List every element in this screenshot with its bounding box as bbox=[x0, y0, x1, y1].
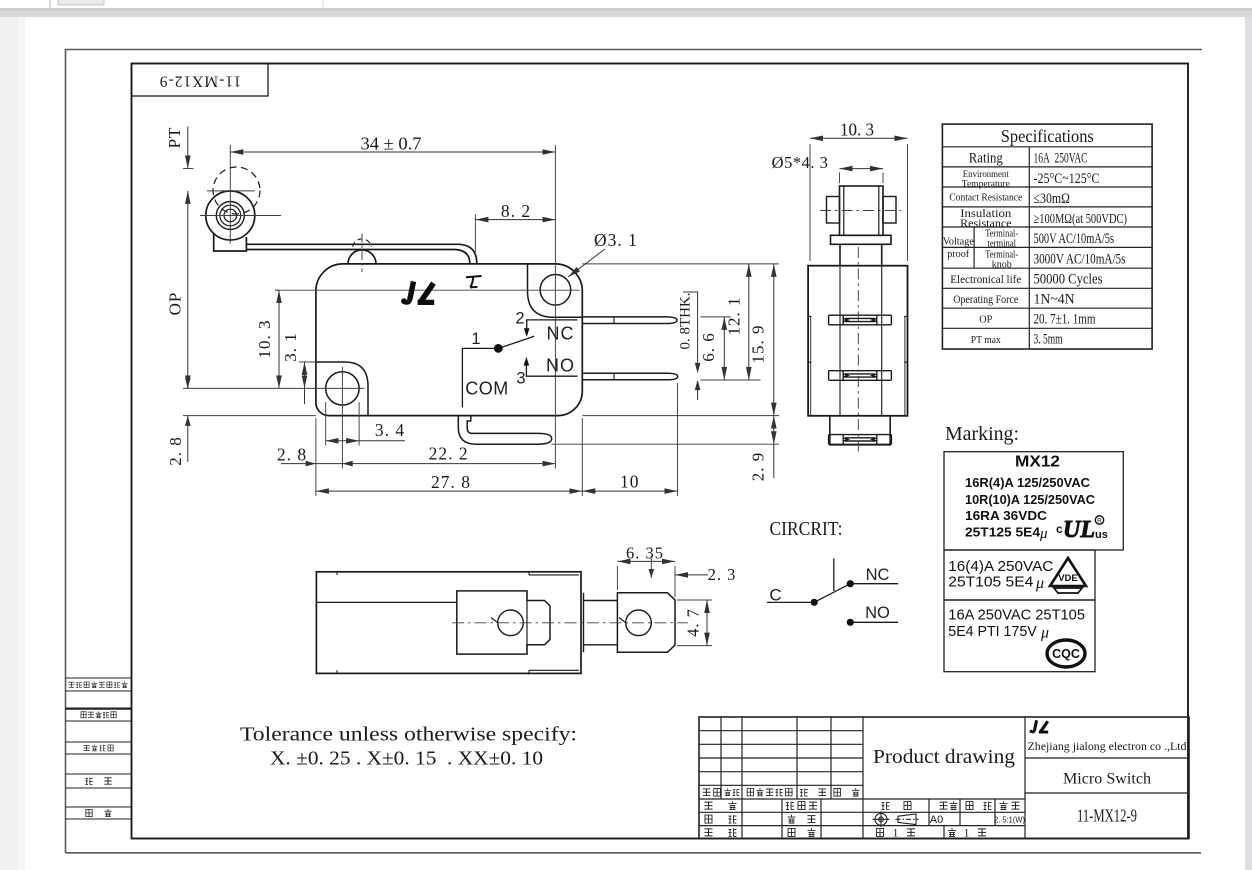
plunger free position (dashed) bbox=[353, 239, 372, 247]
roller pin tabs bbox=[827, 197, 840, 224]
right scrollbar strip bbox=[1245, 17, 1252, 870]
svg-text:11-MX12-9: 11-MX12-9 bbox=[1077, 806, 1137, 826]
NO wire bbox=[850, 621, 898, 623]
svg-text:12. 1: 12. 1 bbox=[725, 297, 744, 336]
svg-text:-25°C~125°C: -25°C~125°C bbox=[1034, 171, 1100, 187]
NO terminal prong bbox=[582, 373, 677, 380]
dim PT bbox=[187, 127, 189, 169]
previous page bottom edge strip bbox=[0, 0, 1252, 9]
gray gap band between pages bbox=[0, 8, 1252, 18]
svg-text:≥100MΩ(at 500VDC): ≥100MΩ(at 500VDC) bbox=[1034, 212, 1128, 227]
right terminal neck bbox=[584, 593, 618, 653]
svg-text:8. 2: 8. 2 bbox=[501, 201, 531, 221]
svg-text:μ: μ bbox=[1040, 625, 1049, 642]
dim 12.1 bbox=[748, 264, 750, 380]
NC wire bbox=[850, 583, 898, 585]
terminal row 2 bbox=[829, 371, 892, 381]
svg-text:Temperature: Temperature bbox=[962, 179, 1010, 189]
C lead wire bbox=[767, 601, 814, 603]
right terminal tab bbox=[617, 593, 675, 653]
svg-text:3. 1: 3. 1 bbox=[281, 332, 300, 362]
svg-text:20. 7±1. 1mm: 20. 7±1. 1mm bbox=[1034, 312, 1097, 328]
svg-text:us: us bbox=[1095, 529, 1108, 541]
dim 27.8 bbox=[316, 490, 582, 492]
svg-text:μ: μ bbox=[1039, 526, 1048, 542]
svg-text:Contact Resistance: Contact Resistance bbox=[949, 192, 1022, 204]
moving contact blade bbox=[814, 584, 850, 603]
revision table header row bbox=[703, 789, 711, 796]
svg-text:Zhejiang jialong electron co .: Zhejiang jialong electron co .,Ltd bbox=[1028, 739, 1187, 753]
dim dia5*4.3 bbox=[840, 168, 884, 170]
extension lines bbox=[207, 190, 255, 192]
svg-text:Tolerance unless otherwise spe: Tolerance unless otherwise specify: bbox=[240, 724, 577, 746]
svg-text:A0: A0 bbox=[930, 814, 943, 826]
projection symbol bbox=[873, 812, 919, 828]
dim 6.6 bbox=[723, 317, 725, 380]
svg-text:CIRCRIT:: CIRCRIT: bbox=[770, 519, 843, 540]
svg-text:10: 10 bbox=[620, 472, 640, 492]
svg-text:VDE: VDE bbox=[1058, 573, 1078, 584]
body edge steps bbox=[808, 316, 907, 362]
svg-text:15. 9: 15. 9 bbox=[749, 325, 768, 364]
front view centerlines bbox=[857, 247, 859, 455]
center terminal tab bbox=[457, 591, 550, 654]
lever bent end bbox=[456, 244, 477, 263]
svg-text:2. 3: 2. 3 bbox=[708, 565, 737, 584]
svg-text:Operating Force: Operating Force bbox=[953, 292, 1018, 306]
svg-text:Ø5*4. 3: Ø5*4. 3 bbox=[772, 153, 829, 172]
terminal row 1 bbox=[829, 315, 892, 325]
svg-text:34 ± 0.7: 34 ± 0.7 bbox=[361, 134, 422, 154]
actuator line bbox=[833, 559, 835, 592]
svg-text:6. 35: 6. 35 bbox=[626, 544, 664, 563]
bottom section bbox=[830, 416, 890, 445]
boss around top-right hole bbox=[528, 264, 583, 317]
svg-text:16A 250VAC 25T105: 16A 250VAC 25T105 bbox=[948, 607, 1085, 624]
roller front bbox=[840, 186, 884, 235]
roller (side view) bbox=[206, 191, 255, 240]
dim 10.3 (vertical) bbox=[278, 290, 280, 388]
svg-text:10. 3: 10. 3 bbox=[255, 320, 274, 359]
svg-text:2. 8: 2. 8 bbox=[166, 436, 185, 466]
svg-text:PT: PT bbox=[165, 127, 184, 149]
NC contact bracket bbox=[527, 320, 578, 329]
svg-text:50000 Cycles: 50000 Cycles bbox=[1034, 272, 1103, 288]
svg-text:3: 3 bbox=[516, 369, 525, 387]
NO arrow (up) bbox=[524, 357, 530, 366]
svg-text:25T125 5E4: 25T125 5E4 bbox=[965, 525, 1041, 540]
dim 3.1 (vertical) bbox=[304, 362, 306, 388]
svg-text:500V AC/10mA/5s: 500V AC/10mA/5s bbox=[1034, 231, 1115, 247]
svg-text:11-MX12-9: 11-MX12-9 bbox=[159, 72, 241, 89]
svg-text:2. 9: 2. 9 bbox=[749, 452, 768, 482]
COM lead line bbox=[462, 348, 494, 407]
svg-text:X. ±0. 25 . X±0. 15 . XX±0. 1: X. ±0. 25 . X±0. 15 . XX±0. 10 bbox=[270, 748, 543, 770]
dim OP bbox=[187, 191, 189, 389]
svg-text:terminal: terminal bbox=[988, 239, 1017, 250]
svg-text:1N~4N: 1N~4N bbox=[1034, 292, 1075, 308]
dim 2.3 bbox=[650, 556, 652, 578]
svg-text:1: 1 bbox=[893, 827, 899, 839]
JL logo on body bbox=[401, 282, 434, 305]
svg-text:C: C bbox=[769, 586, 781, 605]
lever bracket front bbox=[831, 235, 892, 244]
dim 2.8 (left, hole center to body bottom) bbox=[187, 376, 189, 462]
dim 34 +- 0.7 bbox=[230, 151, 555, 153]
svg-text:knob: knob bbox=[992, 260, 1012, 271]
plunger bump bbox=[348, 250, 376, 264]
moving contact arm bbox=[498, 336, 534, 348]
body front bbox=[808, 266, 907, 416]
lever arm bbox=[246, 244, 459, 249]
dim 15.9 bbox=[773, 264, 775, 416]
dim 2.8 (bottom) bbox=[281, 463, 342, 465]
dim 2.9 bbox=[773, 416, 775, 445]
mounting hole bottom-left bbox=[326, 372, 359, 405]
svg-text:UL: UL bbox=[1063, 517, 1095, 543]
svg-text:6. 6: 6. 6 bbox=[699, 332, 718, 362]
roller free position (dashed circle) bbox=[213, 167, 260, 214]
svg-text:proof: proof bbox=[947, 248, 969, 260]
plunger stem bbox=[840, 244, 882, 265]
top-left rotated drawing-number box bbox=[132, 64, 269, 97]
svg-text:COM: COM bbox=[465, 379, 509, 399]
svg-text:3000V AC/10mA/5s: 3000V AC/10mA/5s bbox=[1034, 252, 1126, 268]
svg-text:PT max: PT max bbox=[971, 334, 1001, 346]
dim 22.2 bbox=[342, 463, 555, 465]
svg-text:MX12: MX12 bbox=[1015, 454, 1060, 471]
dim 6.35 bbox=[617, 566, 675, 597]
small mold mark symbol on body top bbox=[466, 276, 482, 288]
COM terminal bent under body bbox=[458, 416, 551, 445]
svg-text:16R(4)A 125/250VAC: 16R(4)A 125/250VAC bbox=[965, 475, 1091, 490]
dim 3.4 bbox=[326, 440, 359, 442]
dim 10 bbox=[582, 490, 677, 492]
svg-text:2: 2 bbox=[515, 310, 524, 328]
svg-text:16(4)A 250VAC: 16(4)A 250VAC bbox=[948, 558, 1053, 575]
svg-text:μ: μ bbox=[1035, 575, 1044, 592]
dim 4.7 bbox=[677, 600, 712, 646]
svg-text:Environment: Environment bbox=[963, 169, 1009, 179]
svg-text:27. 8: 27. 8 bbox=[431, 472, 471, 492]
terminal row 3 (bottom) bbox=[829, 435, 892, 445]
NO contact bracket bbox=[526, 366, 577, 377]
NC arrow (down) bbox=[524, 328, 530, 337]
boss around bottom-left hole bbox=[316, 362, 368, 416]
switch body outline bbox=[316, 264, 582, 416]
svg-text:Micro Switch: Micro Switch bbox=[1063, 771, 1151, 788]
svg-text:16RA 36VDC: 16RA 36VDC bbox=[965, 508, 1048, 523]
internal contact diagram bbox=[465, 310, 575, 399]
svg-text:2. 8: 2. 8 bbox=[277, 445, 307, 465]
centerlines of main view (thin) bbox=[200, 145, 580, 469]
svg-text:16A 250VAC: 16A 250VAC bbox=[1034, 151, 1088, 167]
svg-text:Voltage: Voltage bbox=[943, 236, 974, 248]
dim 8.2 bbox=[475, 219, 555, 221]
svg-text:NC: NC bbox=[547, 323, 575, 343]
svg-text:4. 7: 4. 7 bbox=[684, 608, 703, 637]
approval rows bbox=[705, 802, 713, 809]
dim 10.3 (front view) bbox=[810, 144, 908, 261]
svg-text:Electronical life: Electronical life bbox=[950, 272, 1021, 286]
svg-text:CQC: CQC bbox=[1052, 647, 1080, 661]
svg-text:10. 3: 10. 3 bbox=[840, 120, 874, 140]
svg-text:OP: OP bbox=[979, 314, 992, 326]
svg-text:Specifications: Specifications bbox=[1001, 126, 1094, 146]
svg-text:1: 1 bbox=[471, 330, 480, 348]
mounting hole top-right (dia 3.1) bbox=[540, 275, 571, 306]
svg-text:OP: OP bbox=[166, 292, 185, 316]
svg-text:1: 1 bbox=[964, 827, 970, 839]
svg-text:3. 5mm: 3. 5mm bbox=[1034, 332, 1063, 348]
svg-text:R: R bbox=[1097, 518, 1102, 525]
svg-text:10R(10)A 125/250VAC: 10R(10)A 125/250VAC bbox=[965, 492, 1096, 507]
NC terminal prong bbox=[582, 317, 677, 324]
svg-text:Product drawing: Product drawing bbox=[873, 746, 1015, 768]
svg-text:c: c bbox=[1056, 522, 1063, 536]
svg-text:NO: NO bbox=[546, 356, 575, 376]
svg-text:3. 4: 3. 4 bbox=[375, 420, 405, 440]
svg-text:2. 5:1(W): 2. 5:1(W) bbox=[994, 815, 1025, 825]
svg-text:Ø3. 1: Ø3. 1 bbox=[594, 230, 638, 250]
svg-text:0. 8THK.: 0. 8THK. bbox=[678, 293, 694, 350]
svg-text:NC: NC bbox=[866, 566, 890, 584]
left gray margin bbox=[0, 17, 19, 870]
bottom view body bbox=[316, 572, 581, 674]
inner drawing frame bbox=[132, 64, 1189, 839]
svg-text:25T105 5E4: 25T105 5E4 bbox=[948, 574, 1033, 591]
bottom view centerline bbox=[452, 622, 688, 624]
svg-text:NO: NO bbox=[865, 604, 890, 622]
pivot dot bbox=[494, 344, 503, 353]
dim 0.8THK. bbox=[683, 292, 698, 400]
svg-text:5E4 PTI 175V: 5E4 PTI 175V bbox=[948, 623, 1036, 640]
svg-text:≤30mΩ: ≤30mΩ bbox=[1034, 191, 1071, 207]
svg-text:Rating: Rating bbox=[969, 150, 1003, 166]
circuit node dots bbox=[811, 599, 818, 606]
svg-text:22. 2: 22. 2 bbox=[429, 444, 469, 464]
svg-text:Marking:: Marking: bbox=[945, 424, 1019, 445]
lever pivot bracket bbox=[214, 233, 247, 251]
